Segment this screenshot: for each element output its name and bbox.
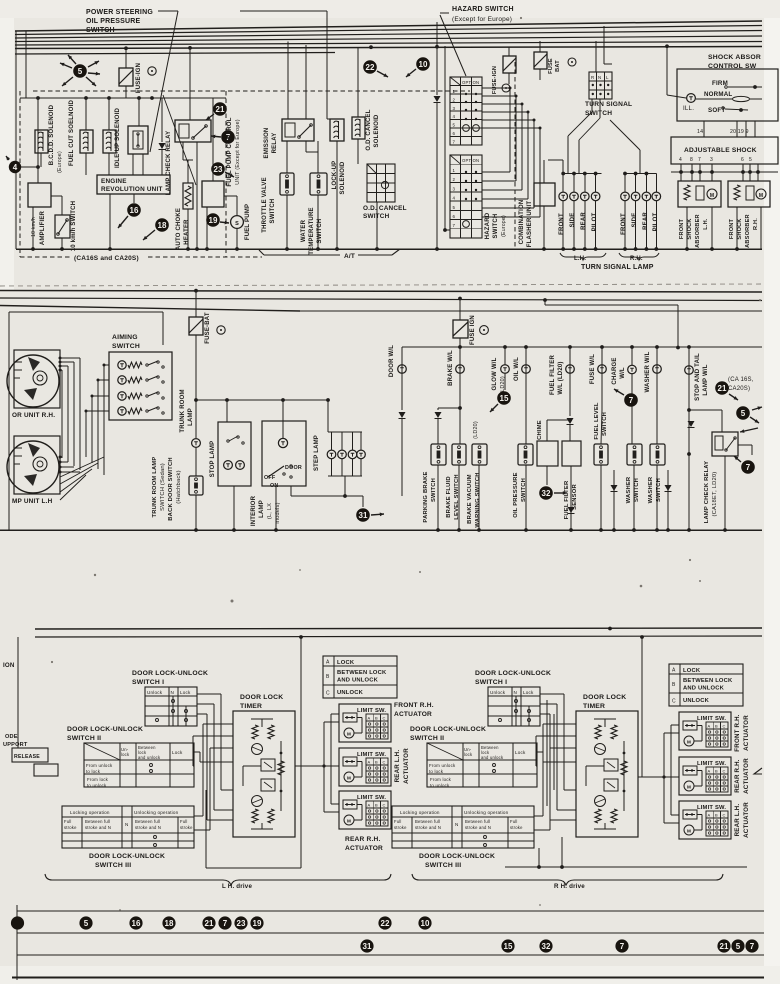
svg-text:TIMER: TIMER [240, 703, 262, 710]
wire [85, 98, 87, 130]
svg-text:16: 16 [132, 919, 141, 928]
svg-text:8: 8 [690, 157, 693, 163]
wire [317, 141, 319, 173]
svg-text:PARKING BRAKE: PARKING BRAKE [423, 471, 429, 522]
svg-text:WASHER W/L: WASHER W/L [645, 351, 651, 392]
wire [666, 46, 668, 95]
wire [206, 867, 301, 869]
box interior lamp [262, 421, 306, 486]
svg-text:SWITCH II: SWITCH II [410, 735, 444, 742]
svg-text:stroke and N: stroke and N [85, 825, 111, 830]
diode [161, 98, 163, 142]
wire [508, 47, 510, 56]
svg-text:DOOR LOCK-UNLOCK: DOOR LOCK-UNLOCK [475, 670, 551, 677]
svg-text:3: 3 [710, 157, 713, 163]
svg-text:IDLE-UP SOLENOID: IDLE-UP SOLENOID [115, 107, 121, 168]
svg-text:EMISSION: EMISSION [264, 128, 270, 159]
wire [21, 166, 38, 168]
svg-text:SWITCH I: SWITCH I [132, 679, 164, 686]
wire [538, 848, 540, 867]
svg-text:ION: ION [3, 662, 15, 669]
wire [721, 410, 723, 432]
svg-text:23: 23 [237, 919, 246, 928]
svg-text:M: M [687, 829, 691, 834]
svg-text:W/L: W/L [620, 367, 626, 379]
indicator circle [568, 58, 576, 66]
svg-text:STEP LAMP: STEP LAMP [314, 435, 320, 471]
bus line 4 [15, 36, 762, 42]
svg-text:(CA18ET, LD20): (CA18ET, LD20) [712, 471, 718, 516]
svg-text:5: 5 [453, 123, 456, 128]
svg-text:7: 7 [453, 139, 456, 144]
indicator circle [502, 84, 510, 92]
door lock timer RH box [576, 711, 638, 837]
svg-text:18: 18 [158, 221, 167, 230]
wire stop tail [676, 346, 680, 350]
svg-text:FUSE-IGN: FUSE-IGN [492, 66, 498, 94]
door lock unlock switch I LH table [145, 687, 197, 726]
svg-text:Lock: Lock [180, 690, 191, 695]
svg-text:(L, LX: (L, LX [267, 503, 273, 519]
wire right [689, 453, 700, 455]
svg-text:MP UNIT L.H: MP UNIT L.H [12, 498, 53, 505]
svg-text:DOOR LOCK-UNLOCK: DOOR LOCK-UNLOCK [67, 726, 143, 733]
left border wire [15, 31, 17, 249]
wire [282, 400, 284, 438]
bottom bus 1 [35, 628, 762, 629]
wires RH tables to timer [540, 693, 564, 695]
strip circled numbers row 1 [11, 916, 24, 929]
switch trunk room lamp [189, 476, 203, 495]
svg-text:21: 21 [720, 942, 729, 951]
svg-text:SOFT: SOFT [708, 107, 725, 114]
svg-text:3: 3 [453, 106, 456, 111]
dashed boundary CA16S left [19, 91, 21, 257]
svg-text:AIMING: AIMING [112, 334, 138, 341]
wire turn signal feeds [591, 99, 593, 112]
switch brake fluid level [452, 444, 466, 465]
svg-text:Unlock: Unlock [147, 690, 163, 695]
wire [562, 160, 564, 174]
svg-text:R.H.: R.H. [630, 256, 643, 262]
svg-text:L: L [606, 75, 609, 80]
svg-text:AMPLIFIER: AMPLIFIER [40, 210, 46, 245]
svg-text:(Europe): (Europe) [57, 151, 63, 173]
scan speckles [94, 574, 96, 576]
svg-text:stroke and N: stroke and N [135, 825, 161, 830]
bus line 6 [15, 47, 762, 49]
lamp unit RH [14, 350, 60, 408]
svg-text:Unlocking operation: Unlocking operation [464, 810, 509, 815]
door lock unlock switch III RH table [392, 806, 534, 848]
svg-text:(LD20): (LD20) [500, 376, 506, 394]
svg-text:FUSE-BAT: FUSE-BAT [205, 312, 211, 344]
svg-text:31: 31 [363, 942, 372, 951]
svg-text:21: 21 [718, 384, 727, 393]
svg-text:LAMP: LAMP [188, 408, 194, 426]
svg-text:Between full: Between full [135, 819, 160, 824]
svg-text:WARNING SWITCH: WARNING SWITCH [475, 472, 481, 527]
svg-text:N: N [455, 822, 459, 827]
svg-text:SWITCH I: SWITCH I [475, 679, 507, 686]
svg-text:M: M [347, 776, 351, 781]
legend table RH [669, 664, 743, 706]
unit engine revolution [97, 175, 170, 194]
svg-text:ACTUATOR: ACTUATOR [743, 758, 750, 794]
svg-text:C: C [326, 691, 330, 697]
circled 16 [127, 203, 141, 217]
solenoid B.C.D.D. [35, 130, 48, 153]
svg-text:FRONT: FRONT [559, 213, 565, 235]
circled 18 [155, 218, 169, 232]
turn signal lamp group LH [563, 173, 602, 175]
junction bus feed [124, 46, 128, 50]
svg-text:stroke: stroke [510, 825, 523, 830]
wire lh verticals [546, 700, 548, 806]
wire [546, 420, 548, 441]
switch aiming [109, 352, 172, 420]
svg-text:4: 4 [679, 157, 682, 163]
solid sub-bus with taps [20, 97, 226, 99]
svg-text:SWITCH: SWITCH [363, 213, 390, 220]
wire [51, 195, 62, 197]
svg-text:and unlock: and unlock [138, 755, 161, 760]
svg-text:BACK DOOR SWITCH: BACK DOOR SWITCH [168, 457, 174, 520]
wire [458, 465, 460, 530]
leader line continuation [240, 10, 327, 12]
svg-text:GLOW W/L: GLOW W/L [492, 357, 498, 390]
svg-text:5: 5 [78, 67, 83, 76]
svg-text:SWITCH II: SWITCH II [67, 735, 101, 742]
svg-text:FLASHER UNIT: FLASHER UNIT [527, 201, 533, 248]
svg-text:stroke: stroke [180, 825, 193, 830]
lamp brake wl [456, 365, 465, 374]
svg-text:DOOR LOCK-UNLOCK: DOOR LOCK-UNLOCK [419, 853, 495, 860]
svg-text:A: A [368, 760, 371, 765]
svg-text:SWITCH: SWITCH [602, 412, 608, 436]
lamp fuel filter wl [568, 345, 572, 349]
svg-text:B.C.D.D. SOLENOID: B.C.D.D. SOLENOID [49, 104, 55, 165]
svg-text:ENGINE: ENGINE [101, 178, 127, 185]
svg-text:L H. drive: L H. drive [222, 883, 252, 890]
svg-text:B: B [672, 682, 676, 688]
relay lamp check [175, 120, 211, 142]
relay lamp check mid [712, 432, 738, 456]
wire [212, 98, 214, 181]
svg-text:OPTION: OPTION [462, 80, 479, 85]
box chime [537, 441, 558, 466]
svg-text:LIMIT SW.: LIMIT SW. [357, 708, 386, 714]
brace RH [619, 253, 659, 260]
brace RH drive [412, 874, 723, 885]
svg-text:FUEL PUMP: FUEL PUMP [245, 204, 251, 240]
motor fuel pump [231, 216, 244, 229]
switch brake vacuum [472, 444, 487, 465]
actuator front shock absorber RH [728, 181, 770, 207]
wire [195, 495, 197, 530]
contacts [725, 86, 728, 89]
svg-text:O.D. CANCEL: O.D. CANCEL [363, 205, 407, 212]
svg-text:Full: Full [64, 819, 72, 824]
junction [299, 635, 303, 639]
svg-text:(Europe): (Europe) [501, 215, 507, 237]
lamp trunk room [192, 439, 201, 448]
svg-text:22: 22 [381, 919, 390, 928]
svg-text:Full: Full [510, 819, 518, 824]
svg-text:O.D. CANCEL: O.D. CANCEL [366, 109, 372, 150]
svg-text:N: N [125, 822, 129, 827]
circled 7 charge [624, 393, 638, 407]
svg-text:TEMPERATURE: TEMPERATURE [309, 207, 315, 254]
lower bus of top section [16, 248, 762, 250]
dashed boundary CA16S top [33, 90, 470, 92]
switch shock absorber control [677, 69, 778, 121]
svg-text:B: B [375, 803, 378, 808]
bracket A/T [264, 254, 340, 256]
wire [656, 465, 658, 530]
arrow mark [740, 428, 758, 432]
svg-text:A: A [326, 660, 330, 666]
svg-text:M: M [687, 740, 691, 745]
svg-text:18: 18 [165, 919, 174, 928]
wire [344, 476, 346, 496]
feed rail warning lamps [402, 346, 762, 348]
svg-text:19: 19 [209, 216, 218, 225]
svg-text:ABSORBER: ABSORBER [695, 214, 701, 248]
svg-text:FUSE: FUSE [548, 58, 554, 74]
svg-text:REAR L.H.: REAR L.H. [734, 804, 741, 837]
svg-text:FUSE-IGN: FUSE-IGN [136, 63, 142, 93]
svg-text:SENSOR: SENSOR [572, 484, 578, 510]
svg-text:ILL.: ILL. [683, 105, 694, 112]
svg-text:Between full: Between full [465, 819, 490, 824]
svg-text:ABSORBER: ABSORBER [745, 214, 751, 248]
unit fuel pump control [202, 181, 224, 207]
svg-text:Full: Full [394, 819, 402, 824]
svg-text:15: 15 [504, 942, 513, 951]
svg-text:Full: Full [180, 819, 188, 824]
circled 10 [416, 57, 430, 71]
svg-text:ACTUATOR: ACTUATOR [743, 715, 750, 751]
wire [357, 47, 359, 117]
svg-text:7: 7 [620, 942, 625, 951]
svg-text:ACTUATOR: ACTUATOR [743, 802, 750, 838]
svg-text:BETWEEN LOCK: BETWEEN LOCK [683, 678, 733, 684]
wire [40, 153, 42, 167]
relay emission [282, 119, 314, 141]
svg-text:A/T: A/T [344, 253, 355, 260]
svg-text:Unlocking operation: Unlocking operation [134, 810, 179, 815]
svg-text:ACTUATOR: ACTUATOR [403, 748, 410, 784]
wire [743, 432, 745, 445]
door lock timer LH box [233, 711, 295, 837]
leader line hazard switch [440, 12, 449, 14]
svg-text:A: A [672, 668, 676, 674]
wire [543, 160, 545, 183]
svg-text:4: 4 [13, 163, 18, 172]
wire [376, 202, 378, 249]
turn signal lamp group RH [625, 173, 656, 175]
svg-text:C: C [383, 716, 386, 721]
svg-text:Between full: Between full [415, 819, 440, 824]
wire [595, 41, 597, 72]
svg-text:SWITCH III: SWITCH III [95, 862, 131, 869]
svg-text:lock: lock [464, 752, 473, 757]
svg-text:A: A [368, 716, 371, 721]
svg-text:INTERIOR: INTERIOR [251, 495, 257, 526]
svg-text:L.H.: L.H. [574, 256, 586, 262]
resistor normal [733, 96, 750, 101]
svg-text:RELAY: RELAY [272, 133, 278, 154]
lamp washer wl [655, 345, 659, 349]
svg-text:Lock: Lock [515, 750, 526, 755]
svg-text:21: 21 [205, 919, 214, 928]
bottom bus 2 [35, 636, 762, 637]
svg-text:ACTUATOR: ACTUATOR [394, 711, 432, 718]
svg-text:N: N [514, 690, 518, 695]
wire fan aiming [104, 364, 109, 366]
svg-text:SHOCK: SHOCK [687, 218, 693, 239]
svg-text:HEATER: HEATER [184, 219, 190, 245]
heater auto choke [183, 183, 193, 209]
svg-text:to lock: to lock [429, 769, 444, 774]
svg-text:FUEL FILTER: FUEL FILTER [550, 355, 556, 395]
svg-text:A: A [708, 769, 711, 774]
svg-text:C: C [723, 724, 726, 729]
unit adjustable shock absorber [671, 137, 778, 164]
svg-text:LIMIT SW.: LIMIT SW. [697, 761, 726, 767]
switch fuel level [594, 444, 608, 465]
svg-text:N: N [598, 75, 601, 80]
svg-text:FUEL LEVEL: FUEL LEVEL [594, 402, 600, 440]
svg-text:UPPORT: UPPORT [3, 742, 28, 748]
svg-text:FRONT R.H.: FRONT R.H. [734, 714, 741, 751]
svg-text:32: 32 [542, 489, 551, 498]
strip line 2 [17, 932, 764, 934]
svg-text:B: B [715, 769, 718, 774]
wire [445, 229, 450, 231]
wire [539, 41, 541, 52]
svg-text:DOOR LOCK-UNLOCK: DOOR LOCK-UNLOCK [89, 853, 165, 860]
svg-text:lock: lock [121, 752, 130, 757]
wire [609, 629, 611, 649]
wire [444, 46, 446, 230]
angle mark [754, 768, 762, 774]
wire [109, 194, 111, 249]
svg-text:to unlock: to unlock [430, 783, 450, 788]
svg-text:4: 4 [453, 114, 456, 119]
rail [671, 171, 778, 173]
svg-text:COMBINATION: COMBINATION [519, 200, 525, 245]
branch to warning rail [543, 298, 547, 302]
svg-text:LIMIT SW.: LIMIT SW. [697, 805, 726, 811]
svg-text:OPTION: OPTION [462, 158, 479, 163]
brace LH [560, 253, 606, 260]
svg-text:(LD20): (LD20) [473, 421, 479, 439]
mid bottom bus 1 [0, 529, 762, 531]
svg-text:10: 10 [419, 60, 428, 69]
svg-text:REAR R.H.: REAR R.H. [734, 759, 741, 793]
svg-text:CHIME: CHIME [537, 420, 543, 440]
svg-text:LAMP W/L: LAMP W/L [703, 364, 709, 395]
svg-text:WASHER: WASHER [626, 476, 632, 503]
svg-text:M: M [759, 193, 763, 199]
svg-text:UNLOCK: UNLOCK [683, 698, 710, 704]
wire [287, 42, 289, 120]
wire door wl [401, 347, 403, 410]
wire [17, 637, 19, 748]
wire [300, 637, 302, 868]
svg-text:7: 7 [750, 942, 755, 951]
svg-text:M: M [347, 732, 351, 737]
circled 31 [356, 508, 370, 522]
left stub release box [12, 748, 48, 762]
svg-text:Lock: Lock [172, 750, 183, 755]
wire [194, 289, 198, 293]
svg-text:HAZARD SWITCH: HAZARD SWITCH [452, 6, 514, 13]
wire rh long vertical [641, 637, 643, 777]
bus line 1 [15, 21, 762, 31]
svg-text:LIMIT SW.: LIMIT SW. [697, 716, 726, 722]
step lamp group [328, 431, 362, 433]
svg-text:DOOR LOCK: DOOR LOCK [583, 694, 626, 701]
wire [570, 466, 572, 522]
wire [458, 297, 462, 301]
bus line 7 left [15, 53, 335, 55]
svg-text:7: 7 [453, 223, 456, 228]
wire [703, 121, 705, 137]
bus line 5 [15, 42, 762, 46]
circled 7 [221, 130, 235, 144]
mid bus 3 [0, 306, 300, 312]
junction [608, 627, 612, 631]
solenoid lock-up [330, 119, 344, 141]
svg-text:32: 32 [542, 942, 551, 951]
svg-text:stroke and N: stroke and N [465, 825, 491, 830]
svg-text:10 km/h: 10 km/h [31, 217, 37, 237]
svg-text:21: 21 [216, 105, 225, 114]
svg-text:From lock: From lock [87, 777, 109, 782]
circled 7 relay [741, 460, 755, 474]
svg-text:10 km/h SWITCH: 10 km/h SWITCH [71, 201, 77, 251]
svg-text:HAZARD: HAZARD [485, 212, 491, 239]
svg-text:Lock: Lock [523, 690, 534, 695]
circled 15 [497, 391, 511, 405]
circled 23 [211, 162, 225, 176]
strip circled numbers row 2 [360, 939, 373, 952]
svg-text:16: 16 [130, 206, 139, 215]
leader line power steering switch [158, 10, 178, 12]
door lock unlock switch II LH table [84, 743, 194, 787]
wire brake wl [458, 345, 462, 349]
svg-text:A: A [368, 803, 371, 808]
box stop lamp [218, 422, 251, 486]
dashed boundary AT right [514, 62, 516, 250]
brace LH drive [45, 874, 391, 885]
svg-text:REAR: REAR [581, 212, 587, 230]
svg-text:ON: ON [270, 483, 279, 489]
svg-text:THROTTLE VALVE: THROTTLE VALVE [262, 177, 268, 233]
svg-text:B: B [715, 724, 718, 729]
strip line 4 [12, 977, 764, 979]
fuse FUSE-IGN engine [119, 68, 133, 86]
svg-text:LAMP: LAMP [259, 500, 265, 518]
mid bus 1 [0, 291, 762, 293]
switch throttle valve [280, 173, 294, 195]
wire [437, 465, 439, 530]
svg-text:Between full: Between full [85, 819, 110, 824]
svg-text:TIMER: TIMER [583, 703, 605, 710]
